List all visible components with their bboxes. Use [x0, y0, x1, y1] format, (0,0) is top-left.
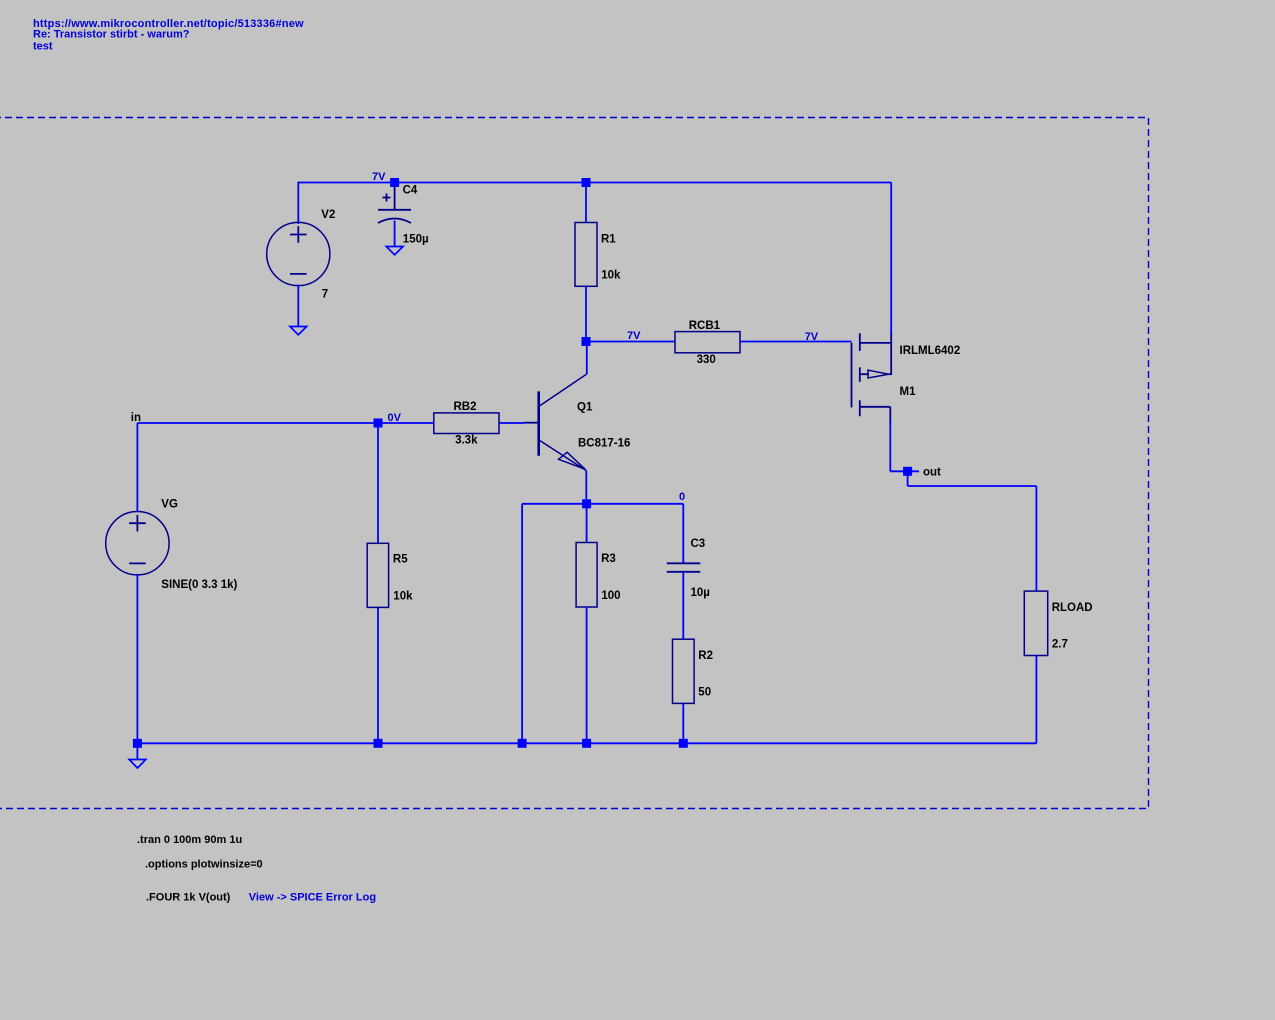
- svg-text:0V: 0V: [388, 412, 402, 424]
- wire rail to RCB1: [586, 341, 675, 343]
- node bottom VG: [133, 739, 142, 748]
- wire RLOAD bottom lead: [1035, 656, 1037, 744]
- wire C4 bottom lead: [394, 221, 396, 247]
- svg-text:7V: 7V: [805, 331, 819, 343]
- svg-text:V2: V2: [321, 209, 335, 221]
- wire out to RLOAD: [908, 485, 1037, 487]
- svg-text:R5: R5: [393, 554, 408, 566]
- wire Q1 collector: [586, 342, 588, 375]
- svg-text:test: test: [33, 41, 53, 53]
- svg-text:.options plotwinsize=0: .options plotwinsize=0: [145, 859, 263, 871]
- wire in rail: [137, 422, 378, 424]
- wire out rail: [890, 470, 919, 472]
- wire node to RB2: [378, 422, 434, 424]
- svg-text:out: out: [923, 467, 941, 479]
- wire RB2 to base: [499, 422, 524, 424]
- resistor R2: [673, 639, 695, 703]
- node top rail at R1: [582, 178, 591, 187]
- svg-text:10k: 10k: [393, 590, 413, 602]
- wire C3 top lead: [682, 504, 684, 564]
- svg-text:3.3k: 3.3k: [455, 435, 478, 447]
- svg-text:Q1: Q1: [577, 402, 593, 414]
- node bottom left branch: [518, 739, 527, 748]
- ground under C4: [386, 247, 403, 255]
- wire V2 top lead: [297, 182, 299, 225]
- svg-text:BC817-16: BC817-16: [578, 437, 630, 449]
- wire emitter rail: [522, 503, 683, 505]
- svg-text:C3: C3: [691, 538, 706, 550]
- node R1 bottom / base rail: [582, 337, 591, 346]
- transistor Q1: [524, 374, 587, 471]
- svg-text:10k: 10k: [601, 270, 621, 282]
- capacitor C4: [378, 186, 411, 223]
- wire R5 top lead: [377, 423, 379, 543]
- ground bottom left: [129, 760, 146, 769]
- svg-text:R1: R1: [601, 233, 616, 245]
- node bottom R3: [582, 739, 591, 748]
- svg-text:VG: VG: [161, 498, 178, 510]
- wire C3 to R2: [682, 572, 684, 639]
- svg-text:2.7: 2.7: [1052, 639, 1068, 651]
- voltage source VG: [106, 512, 169, 575]
- wire R2 bottom lead: [682, 703, 684, 743]
- wire gnd stub: [136, 743, 138, 759]
- wire bottom rail: [137, 742, 1036, 744]
- resistor R3: [576, 543, 597, 608]
- svg-text:50: 50: [698, 686, 711, 698]
- svg-text:10µ: 10µ: [691, 587, 710, 599]
- svg-text:Re: Transistor stirbt - warum?: Re: Transistor stirbt - warum?: [33, 29, 190, 41]
- wire left branch down: [521, 504, 523, 744]
- resistor RCB1: [675, 332, 740, 353]
- dashed schematic border: [0, 118, 1149, 809]
- svg-text:View -> SPICE Error Log: View -> SPICE Error Log: [249, 891, 376, 903]
- node bottom R2: [679, 739, 688, 748]
- voltage source V2: [267, 222, 330, 285]
- svg-text:RCB1: RCB1: [689, 320, 721, 332]
- svg-text:7V: 7V: [627, 330, 641, 342]
- svg-text:7: 7: [322, 288, 328, 300]
- svg-text:C4: C4: [403, 184, 418, 196]
- wire R1 top lead: [585, 183, 587, 223]
- header url text: [33, 18, 304, 53]
- wire VG bottom lead: [136, 574, 138, 743]
- svg-text:0: 0: [679, 491, 685, 503]
- mosfet M1: [852, 333, 892, 423]
- node 7V junction at C4: [390, 178, 399, 187]
- wire V2 bottom lead: [297, 285, 299, 327]
- svg-text:.tran 0 100m 90m 1u: .tran 0 100m 90m 1u: [137, 834, 242, 846]
- wire R5 bottom lead: [377, 607, 379, 743]
- node emitter junction: [582, 499, 591, 508]
- wire M1 source down: [889, 422, 891, 471]
- wire RCB1 to gate: [740, 341, 852, 343]
- svg-text:330: 330: [697, 354, 716, 366]
- svg-text:7V: 7V: [372, 171, 386, 183]
- svg-text:R3: R3: [601, 553, 616, 565]
- svg-text:.FOUR 1k V(out): .FOUR 1k V(out): [146, 891, 231, 903]
- svg-text:R2: R2: [698, 650, 713, 662]
- wire top rail 7V: [298, 182, 891, 184]
- wire M1 drain up: [890, 183, 892, 335]
- wire VG top lead: [136, 423, 138, 512]
- svg-text:SINE(0 3.3 1k): SINE(0 3.3 1k): [161, 579, 237, 591]
- resistor RB2: [434, 413, 499, 434]
- wire R1 bottom lead: [585, 286, 587, 341]
- node 0V: [374, 419, 383, 428]
- svg-text:RB2: RB2: [453, 401, 476, 413]
- wire out down: [907, 471, 909, 486]
- svg-text:M1: M1: [900, 386, 917, 398]
- wire R3 top lead: [586, 504, 588, 543]
- resistor R1: [575, 223, 597, 287]
- svg-text:100: 100: [601, 590, 620, 602]
- resistor RLOAD: [1024, 591, 1047, 655]
- wire Q1 emitter down: [585, 471, 587, 504]
- node out: [903, 467, 912, 476]
- ground under V2: [290, 327, 307, 335]
- node bottom R5: [374, 739, 383, 748]
- svg-text:RLOAD: RLOAD: [1052, 602, 1093, 614]
- capacitor C3: [667, 563, 701, 572]
- wire RLOAD top lead: [1035, 486, 1037, 591]
- svg-text:IRLML6402: IRLML6402: [900, 345, 961, 357]
- resistor R5: [367, 543, 388, 607]
- svg-text:150µ: 150µ: [403, 233, 429, 245]
- wire R3 bottom lead: [586, 607, 588, 743]
